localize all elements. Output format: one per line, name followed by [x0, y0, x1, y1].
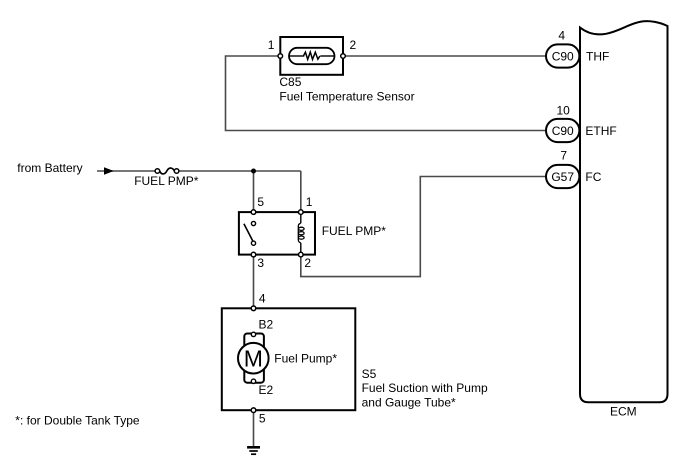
wire: FC net, relay pin 2 to ECM G57 pin 7 — [301, 177, 546, 277]
svg-text:4: 4 — [558, 28, 565, 42]
wire: pump box pin to motor terminal B2 — [253, 308, 255, 334]
relay switch blade — [244, 224, 253, 242]
wire: relay pin 3 to fuel pump connector pin 4 — [253, 255, 255, 309]
fuel pump box S5 — [222, 308, 355, 410]
wire: pump box pin 5 to ground — [253, 410, 255, 447]
wire: THF net, sensor pin 2 to ECM C90 pin 4 — [343, 55, 546, 57]
ground symbol — [247, 447, 260, 454]
svg-text:Fuel Temperature Sensor: Fuel Temperature Sensor — [279, 89, 414, 103]
svg-text:*: for Double Tank Type: *: for Double Tank Type — [15, 414, 140, 428]
wire: ETHF net, sensor pin 1 left/down/right to ECM C90 pin 10 — [226, 56, 547, 131]
pin 1 terminal circle — [278, 54, 283, 59]
svg-text:Fuel Suction with Pump: Fuel Suction with Pump — [362, 381, 488, 395]
resistor zigzag — [303, 52, 320, 59]
wire: drop to relay pin 1 — [300, 171, 302, 212]
relay pin 3 circle — [251, 252, 256, 257]
svg-text:2: 2 — [350, 38, 357, 52]
ECM connector G57 pin 7 (FC) stadium — [546, 165, 579, 188]
ECM connector C90 pin 4 (THF) stadium — [546, 44, 579, 67]
sensor element (thermistor) stadium — [289, 48, 335, 64]
connector C85 box (Fuel Temperature Sensor) — [280, 37, 343, 75]
svg-text:C90: C90 — [552, 49, 574, 63]
svg-text:from Battery: from Battery — [17, 161, 82, 175]
ECM body — [580, 21, 668, 402]
svg-text:and Gauge Tube*: and Gauge Tube* — [362, 395, 456, 409]
relay pin 1 circle — [299, 210, 304, 215]
junction: battery feed / relay pin 5 — [251, 169, 256, 174]
relay switch fixed contact — [251, 221, 255, 225]
svg-text:M: M — [244, 345, 263, 371]
relay FUEL PMP* box — [239, 212, 315, 255]
svg-text:ECM: ECM — [610, 405, 637, 419]
wire: battery feed segment before fuse — [97, 170, 155, 172]
svg-text:7: 7 — [560, 148, 567, 162]
svg-text:FUEL PMP*: FUEL PMP* — [134, 174, 199, 188]
pump box pin 4 circle — [251, 306, 256, 311]
svg-text:THF: THF — [586, 49, 609, 63]
relay switch moving contact — [251, 241, 255, 245]
svg-text:C90: C90 — [552, 124, 574, 138]
relay pin 2 circle — [299, 252, 304, 257]
ECM connector C90 pin 10 (ETHF) stadium — [546, 119, 579, 142]
pin 2 terminal circle — [341, 54, 346, 59]
svg-text:G57: G57 — [551, 170, 574, 184]
wire: motor terminal E2 to pump box pin — [253, 381, 255, 410]
wire: battery feed after fuse to relay pin 1 drop — [179, 170, 301, 172]
arrow: from Battery direction — [104, 167, 114, 175]
svg-text:4: 4 — [259, 292, 266, 306]
svg-text:E2: E2 — [259, 383, 274, 397]
resistor element leads — [289, 55, 304, 57]
pump box pin 5 circle — [251, 408, 256, 413]
svg-text:S5: S5 — [362, 367, 377, 381]
relay pin 5 circle — [251, 210, 256, 215]
svg-text:1: 1 — [268, 38, 275, 52]
svg-text:FC: FC — [585, 170, 601, 184]
svg-text:ETHF: ETHF — [585, 124, 616, 138]
svg-text:2: 2 — [304, 256, 311, 270]
relay coil lead bottom — [300, 243, 302, 255]
svg-text:3: 3 — [257, 256, 264, 270]
svg-text:Fuel Pump*: Fuel Pump* — [274, 351, 337, 365]
svg-text:C85: C85 — [279, 75, 301, 89]
fuse FUEL PMP* — [155, 168, 179, 174]
motor circle — [238, 343, 269, 374]
motor M1 body (Fuel Pump) — [244, 334, 264, 383]
svg-text:5: 5 — [257, 195, 264, 209]
svg-text:B2: B2 — [259, 318, 274, 332]
motor terminal B2 circle — [251, 332, 255, 336]
svg-text:1: 1 — [306, 195, 313, 209]
relay coil lead top — [300, 212, 302, 223]
relay coil — [298, 223, 304, 243]
motor terminal E2 circle — [251, 379, 255, 383]
svg-text:10: 10 — [557, 103, 571, 117]
svg-text:FUEL PMP*: FUEL PMP* — [322, 224, 387, 238]
wire: drop to relay pin 5 — [253, 171, 255, 212]
svg-text:5: 5 — [259, 412, 266, 426]
